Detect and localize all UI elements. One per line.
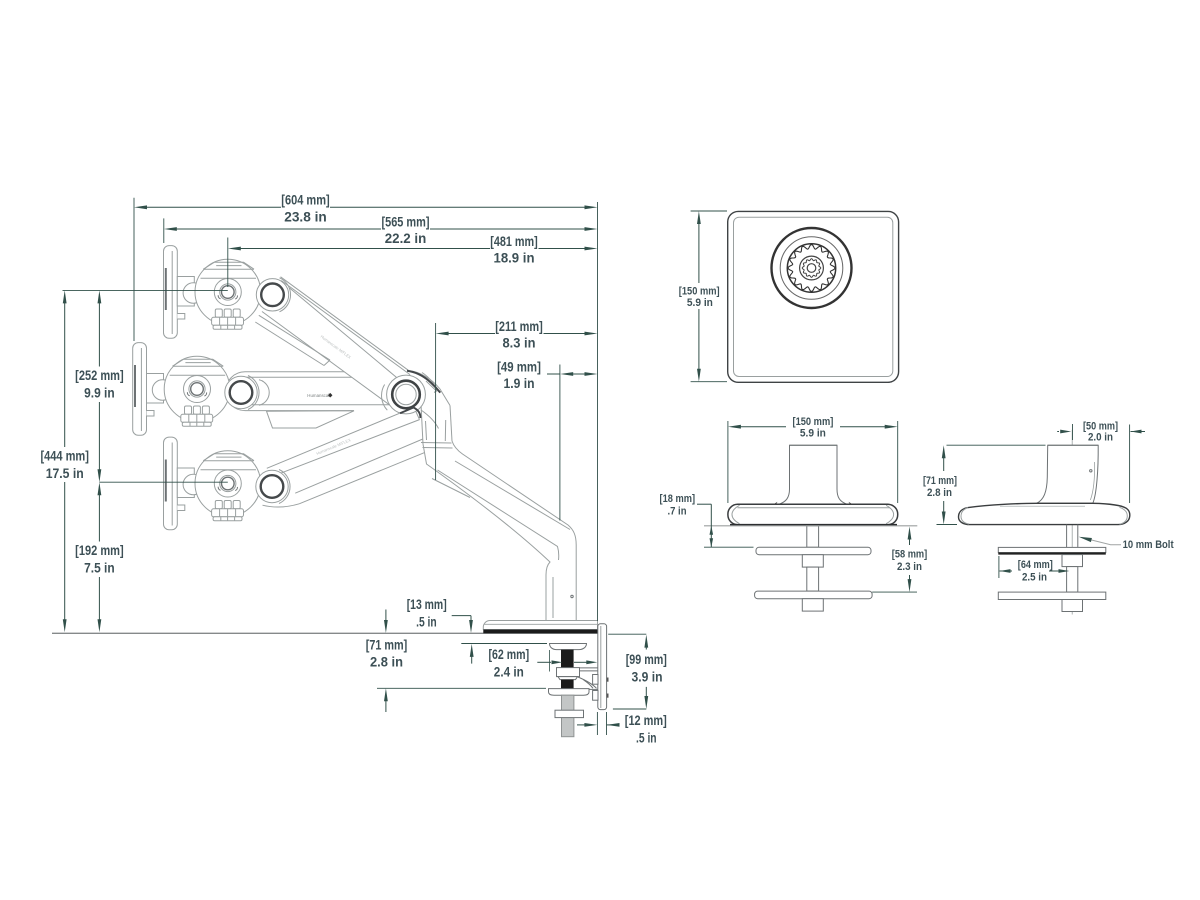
label 10 mm Bolt <box>1082 538 1122 545</box>
middle arm link horizontal position <box>226 372 397 428</box>
monitor head bottom position <box>164 437 261 530</box>
svg-text:.5 in: .5 in <box>636 731 657 746</box>
svg-text:[71 mm]: [71 mm] <box>366 637 408 652</box>
svg-text:[604 mm]: [604 mm] <box>281 193 329 208</box>
VESA plate front view <box>728 211 899 382</box>
svg-text:[444 mm]: [444 mm] <box>40 449 89 464</box>
dimension 481 mm <box>227 238 229 288</box>
dimension 192 mm <box>98 494 100 541</box>
svg-text:[71 mm]: [71 mm] <box>923 475 957 487</box>
svg-text:[565 mm]: [565 mm] <box>382 214 430 229</box>
dimension 50 mm <box>1057 431 1059 433</box>
svg-text:18.9 in: 18.9 in <box>494 251 535 266</box>
svg-text:2.5 in: 2.5 in <box>1022 571 1047 583</box>
lower arm link bottom position <box>263 407 433 507</box>
monitor head middle position <box>133 343 230 436</box>
svg-text:2.8 in: 2.8 in <box>370 655 403 670</box>
svg-text:5.9 in: 5.9 in <box>687 297 713 309</box>
svg-text:[13 mm]: [13 mm] <box>407 597 447 612</box>
VESA rosette <box>772 228 852 308</box>
svg-text:5.9 in: 5.9 in <box>800 428 826 440</box>
forearm lower link <box>408 371 576 621</box>
arm end ring top head <box>256 278 290 312</box>
dimension 252 mm <box>98 302 100 366</box>
monitor head top position <box>164 246 261 339</box>
svg-text:[50 mm]: [50 mm] <box>1083 420 1118 432</box>
svg-text:[18 mm]: [18 mm] <box>660 493 696 505</box>
arm end ring bottom head <box>256 470 290 504</box>
dimension 150 mm disc width <box>727 421 729 503</box>
dimension 444 mm height <box>64 302 66 447</box>
reference line through top head center <box>63 289 228 291</box>
svg-text:8.3 in: 8.3 in <box>503 336 536 351</box>
dimension 211 mm <box>435 323 437 480</box>
svg-text:9.9 in: 9.9 in <box>84 386 115 401</box>
clamp bolt assembly <box>549 644 598 737</box>
grommet mount side view <box>959 430 1130 615</box>
base disc on desk <box>483 621 597 630</box>
svg-text:[252 mm]: [252 mm] <box>75 368 124 383</box>
svg-text:.5 in: .5 in <box>416 614 437 629</box>
arm end ring middle head <box>259 380 269 405</box>
svg-text:[192 mm]: [192 mm] <box>75 543 124 558</box>
svg-text:[64 mm]: [64 mm] <box>1018 559 1053 571</box>
svg-text:[62 mm]: [62 mm] <box>489 647 530 662</box>
dimension 565 mm <box>163 218 165 243</box>
svg-text:2.3 in: 2.3 in <box>897 561 922 573</box>
svg-text:7.5 in: 7.5 in <box>84 561 115 576</box>
right extension line <box>597 202 599 621</box>
dimension 49 mm <box>559 365 561 521</box>
svg-text:22.2 in: 22.2 in <box>385 231 427 246</box>
svg-text:3.9 in: 3.9 in <box>632 670 663 685</box>
desk line middle view <box>704 525 917 527</box>
svg-text:10 mm Bolt: 10 mm Bolt <box>1123 539 1174 551</box>
svg-text:[150 mm]: [150 mm] <box>793 416 834 428</box>
svg-text:23.8 in: 23.8 in <box>284 210 327 225</box>
svg-text:.7 in: .7 in <box>668 506 687 518</box>
dimension 64 mm <box>998 556 1000 578</box>
reference line through bottom head center <box>99 481 227 483</box>
svg-text:[481 mm]: [481 mm] <box>490 234 538 249</box>
svg-text:[12 mm]: [12 mm] <box>625 713 667 728</box>
dimension 150 mm plate height <box>691 210 727 212</box>
dimension 71 mm right view <box>947 444 1046 446</box>
dimension 58 mm <box>908 527 912 540</box>
desk clamp bracket <box>593 624 609 710</box>
elbow joint <box>382 385 388 411</box>
svg-text:1.9 in: 1.9 in <box>504 376 535 391</box>
svg-text:[211 mm]: [211 mm] <box>495 319 543 334</box>
svg-text:2.0 in: 2.0 in <box>1088 432 1113 444</box>
desk surface line <box>52 632 606 634</box>
svg-text:17.5 in: 17.5 in <box>46 466 84 481</box>
svg-text:2.4 in: 2.4 in <box>494 664 524 679</box>
dimension 99 mm <box>608 633 646 635</box>
svg-text:[99 mm]: [99 mm] <box>626 652 667 667</box>
svg-text:2.8 in: 2.8 in <box>927 487 952 499</box>
svg-text:[150 mm]: [150 mm] <box>679 285 720 297</box>
bolt diameter arrows <box>537 661 551 663</box>
svg-text:[49 mm]: [49 mm] <box>497 359 541 374</box>
svg-text:[58 mm]: [58 mm] <box>892 549 928 561</box>
grommet mount front view <box>728 445 898 611</box>
dimension 604 mm overall width <box>133 198 135 341</box>
dimension 62 mm <box>461 643 547 645</box>
dimension 12 mm clamp plate <box>596 712 598 735</box>
upper arm link top position <box>255 277 421 406</box>
